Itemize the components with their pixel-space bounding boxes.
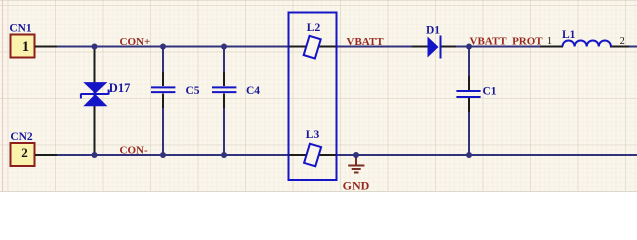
svg-text:C5: C5 [186, 85, 200, 97]
junction at GND [353, 152, 359, 158]
wire CON+ net (CN1 to box) [56, 46, 290, 48]
junction on CON+ at C4 [221, 44, 227, 50]
svg-text:2: 2 [21, 145, 28, 160]
junction on VBATT PROT at C1 [466, 44, 472, 50]
sheet border line [2, 0, 4, 192]
junction at C1 bottom [466, 152, 472, 158]
fuse/bead L2 [289, 22, 336, 58]
wire right of L1 [628, 46, 637, 48]
junction on CON+ at C5 [160, 44, 166, 50]
junction on CON- at D17 [92, 152, 98, 158]
junction on CON- at C5 [160, 152, 166, 158]
wire VBATT net (box to D1) [335, 46, 413, 48]
svg-text:VBATT: VBATT [347, 36, 385, 48]
pin 1 of CN2 [35, 154, 57, 156]
svg-text:CON-: CON- [120, 145, 148, 157]
junction on CON+ at D17 [92, 44, 98, 50]
svg-text:CN2: CN2 [10, 131, 33, 143]
svg-text:L3: L3 [306, 129, 320, 141]
svg-text:CN1: CN1 [9, 23, 32, 35]
svg-text:1: 1 [22, 39, 29, 55]
wire C1 branch [468, 47, 470, 91]
svg-text:VBATT PROT: VBATT PROT [470, 36, 544, 48]
filter module body (L2/L3 box) [289, 13, 337, 181]
connector CN2 [10, 131, 34, 166]
fuse/bead L3 [289, 129, 336, 166]
connector CN1 [9, 23, 34, 58]
TVS diode D17 [81, 48, 130, 155]
capacitor C1 [456, 76, 496, 112]
svg-text:1: 1 [547, 36, 552, 47]
svg-text:CON+: CON+ [120, 36, 151, 48]
svg-text:L2: L2 [307, 22, 321, 34]
junction on CON- at C4 [221, 152, 227, 158]
ground symbol GND [343, 155, 370, 193]
svg-text:2: 2 [620, 36, 625, 47]
capacitor C4 [212, 72, 260, 108]
wire C4 branch [223, 47, 225, 87]
svg-text:D1: D1 [426, 25, 440, 37]
wire C5 branch [162, 47, 164, 87]
wire VBATT PROT net (D1 to L1) [455, 46, 541, 48]
wire GND net (box to right edge) [335, 154, 637, 156]
svg-text:C1: C1 [483, 86, 497, 98]
svg-text:GND: GND [343, 179, 370, 193]
svg-text:D17: D17 [109, 81, 131, 95]
svg-text:L1: L1 [562, 29, 576, 41]
svg-text:C4: C4 [246, 85, 260, 97]
inductor L1 [540, 29, 629, 47]
diode D1 [412, 25, 456, 59]
wire CON- net (CN2 to box) [56, 154, 290, 156]
pin 1 of CN1 [35, 46, 57, 48]
capacitor C5 [151, 72, 200, 108]
